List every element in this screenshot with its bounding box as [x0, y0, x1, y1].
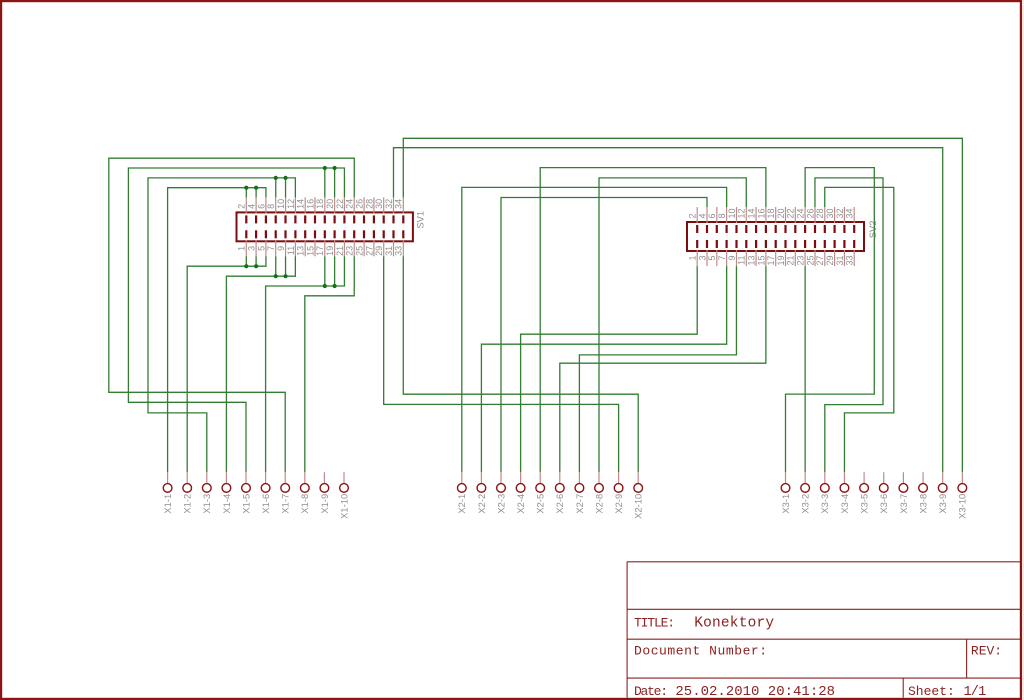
- svg-text:X1-8: X1-8: [299, 494, 310, 514]
- svg-text:8: 8: [717, 213, 727, 218]
- svg-text:13: 13: [747, 256, 757, 266]
- wire net SV1.2/4/6 to X1-1: [168, 188, 266, 473]
- SV1 pin 13 (stub, contact, number): [296, 230, 307, 256]
- SV1 pin 4 (stub, contact, number): [247, 197, 258, 223]
- svg-text:X1-4: X1-4: [221, 494, 232, 514]
- svg-text:Sheet:: Sheet:: [908, 684, 955, 699]
- SV2 pin 34 (stub, contact, number): [845, 207, 856, 233]
- terminal X2-4: [515, 472, 526, 513]
- svg-text:REV:: REV:: [971, 644, 1002, 659]
- svg-text:X1-3: X1-3: [201, 494, 212, 514]
- svg-text:9: 9: [727, 256, 737, 261]
- wire net SV2.26 to X3-3: [815, 178, 883, 472]
- svg-text:17: 17: [315, 246, 325, 256]
- wire net X2-3 to SV2.4: [501, 198, 707, 473]
- svg-text:Konektory: Konektory: [694, 616, 774, 632]
- svg-text:6: 6: [707, 213, 717, 218]
- svg-text:17: 17: [766, 256, 776, 266]
- SV2 pin 26 (stub, contact, number): [805, 207, 816, 233]
- svg-text:SV2: SV2: [867, 221, 878, 239]
- wire net SV1.8/10/12 to X1-3: [148, 178, 295, 472]
- SV2 pin 19 (stub, contact, number): [776, 240, 787, 266]
- wire net SV1.29 to X2-9: [384, 256, 619, 472]
- wire net SV1.34 to X3-10: [403, 138, 962, 472]
- svg-text:18: 18: [766, 208, 776, 218]
- svg-text:23: 23: [796, 256, 806, 266]
- SV1 pin 34 (stub, contact, number): [394, 197, 405, 223]
- SV1 pin 8 (stub, contact, number): [266, 197, 277, 223]
- svg-text:X1-2: X1-2: [182, 494, 193, 514]
- SV2 pin 4 (stub, contact, number): [697, 207, 708, 233]
- wire net SV2.28 to X3-4: [825, 187, 894, 472]
- connector SV1 body: [237, 212, 413, 241]
- svg-text:6: 6: [256, 204, 266, 209]
- svg-text:10: 10: [727, 208, 737, 218]
- SV1 pin 6 (stub, contact, number): [256, 197, 267, 223]
- svg-text:10: 10: [276, 199, 286, 209]
- svg-text:18: 18: [315, 199, 325, 209]
- SV1 pin 5 (stub, contact, number): [256, 230, 267, 256]
- terminal X1-9: [319, 472, 330, 513]
- svg-text:11: 11: [737, 256, 747, 265]
- wire net X2-5 to SV2.16: [540, 168, 766, 473]
- svg-text:X2-9: X2-9: [613, 494, 624, 514]
- svg-text:SV1: SV1: [414, 211, 425, 229]
- svg-text:24: 24: [796, 208, 806, 218]
- svg-text:X3-7: X3-7: [898, 494, 909, 514]
- svg-text:X2-10: X2-10: [633, 494, 644, 519]
- SV2 pin 7 (stub, contact, number): [717, 240, 728, 266]
- wire net SV2.24 to X3-1: [786, 168, 875, 473]
- SV1 pin 25 (stub, contact, number): [354, 230, 365, 256]
- svg-text:31: 31: [384, 246, 394, 256]
- svg-text:26: 26: [354, 199, 364, 209]
- SV1 pin 16 (stub, contact, number): [305, 197, 316, 223]
- svg-text:15: 15: [756, 256, 766, 266]
- svg-text:X2-6: X2-6: [554, 494, 565, 514]
- svg-text:X3-9: X3-9: [937, 494, 948, 514]
- terminal X3-1: [780, 472, 791, 513]
- terminal X3-8: [917, 472, 928, 513]
- svg-text:11: 11: [286, 246, 296, 255]
- svg-text:X1-1: X1-1: [162, 494, 173, 514]
- terminal X2-5: [535, 472, 546, 513]
- svg-text:13: 13: [296, 246, 306, 256]
- SV2 pin 28 (stub, contact, number): [815, 207, 826, 233]
- svg-text:15: 15: [305, 246, 315, 256]
- terminal X1-5: [240, 472, 251, 513]
- terminal X3-9: [937, 472, 948, 513]
- SV2 pin 18 (stub, contact, number): [766, 207, 777, 233]
- svg-text:3: 3: [247, 246, 257, 251]
- svg-text:7: 7: [717, 256, 727, 261]
- terminal X3-4: [839, 472, 850, 513]
- wire net X2-1 to SV2.8: [462, 187, 727, 472]
- SV1 pin 14 (stub, contact, number): [296, 197, 307, 223]
- SV1 pin 10 (stub, contact, number): [276, 197, 287, 223]
- terminal X2-3: [495, 472, 506, 513]
- SV2 pin 11 (stub, contact, number): [737, 240, 748, 266]
- wire net SV1.24 to X1-7: [109, 158, 354, 472]
- svg-text:3: 3: [697, 256, 707, 261]
- junction SV1 pin 8: [274, 176, 278, 180]
- SV1 pin 27 (stub, contact, number): [364, 230, 375, 256]
- terminal X1-7: [280, 472, 291, 513]
- SV1 pin 23 (stub, contact, number): [345, 230, 356, 256]
- svg-text:20: 20: [325, 199, 335, 209]
- svg-text:X2-4: X2-4: [515, 494, 526, 514]
- terminal X3-10: [957, 472, 968, 519]
- frame: right pale margin strip: [1022, 0, 1024, 700]
- connector SV2 body: [687, 222, 864, 251]
- svg-text:27: 27: [364, 246, 374, 256]
- SV1 pin 26 (stub, contact, number): [354, 197, 365, 223]
- terminal X1-4: [221, 472, 232, 513]
- svg-text:25: 25: [354, 246, 364, 256]
- svg-text:Document Number:: Document Number:: [634, 644, 768, 659]
- SV2 pin 10 (stub, contact, number): [727, 207, 738, 233]
- svg-text:26: 26: [805, 208, 815, 218]
- svg-text:28: 28: [364, 199, 374, 209]
- junction SV1 pin 20: [333, 166, 337, 170]
- SV1 pin 24 (stub, contact, number): [345, 197, 356, 223]
- SV1 pin 9 (stub, contact, number): [276, 230, 287, 256]
- svg-text:5: 5: [256, 246, 266, 251]
- SV1 pin 3 (stub, contact, number): [247, 230, 258, 256]
- svg-text:X1-9: X1-9: [319, 494, 330, 514]
- svg-text:1: 1: [688, 256, 698, 261]
- SV2 pin 9 (stub, contact, number): [727, 240, 738, 266]
- SV1 pin 30 (stub, contact, number): [374, 197, 385, 223]
- svg-text:21: 21: [786, 256, 796, 266]
- SV2 pin 13 (stub, contact, number): [747, 240, 758, 266]
- junction SV1 pin 19: [333, 284, 337, 288]
- svg-text:25: 25: [805, 256, 815, 266]
- SV1 pin 31 (stub, contact, number): [384, 230, 395, 256]
- SV2 pin 24 (stub, contact, number): [796, 207, 807, 233]
- SV2 pin 22 (stub, contact, number): [786, 207, 797, 233]
- SV2 pin 12 (stub, contact, number): [737, 207, 748, 233]
- wire net SV1.7/9/11 to X1-4: [226, 256, 295, 472]
- svg-text:X2-3: X2-3: [495, 494, 506, 514]
- svg-text:X3-3: X3-3: [819, 494, 830, 514]
- wire net X2-4 to SV2.1: [521, 266, 698, 472]
- SV2 pin 2 (stub, contact, number): [688, 207, 699, 233]
- svg-text:X2-2: X2-2: [476, 494, 487, 514]
- svg-text:X1-7: X1-7: [280, 494, 291, 514]
- terminal X2-2: [476, 472, 487, 513]
- svg-text:19: 19: [325, 246, 335, 256]
- SV1 pin 29 (stub, contact, number): [374, 230, 385, 256]
- SV2 pin 15 (stub, contact, number): [756, 240, 767, 266]
- terminal X1-1: [162, 472, 173, 513]
- svg-text:5: 5: [707, 256, 717, 261]
- junction SV1 pin 4: [254, 186, 258, 190]
- SV1 pin 1 (stub, contact, number): [237, 230, 248, 256]
- svg-text:20: 20: [776, 208, 786, 218]
- SV2 pin 6 (stub, contact, number): [707, 207, 718, 233]
- SV2 pin 23 (stub, contact, number): [796, 240, 807, 266]
- SV2 pin 20 (stub, contact, number): [776, 207, 787, 233]
- SV2 pin 32 (stub, contact, number): [835, 207, 846, 233]
- junction SV1 pin 9: [283, 274, 287, 278]
- wire net X2-8 to SV2.12: [599, 178, 746, 472]
- svg-text:TITLE:: TITLE:: [634, 616, 674, 631]
- svg-text:1/1: 1/1: [964, 685, 987, 700]
- junction SV1 pin 3: [254, 264, 258, 268]
- svg-text:30: 30: [825, 208, 835, 218]
- wire net X2-2 to SV2.7: [481, 266, 726, 472]
- svg-text:X3-2: X3-2: [800, 494, 811, 514]
- SV1 pin 19 (stub, contact, number): [325, 230, 336, 256]
- terminal X2-1: [456, 472, 467, 513]
- svg-text:34: 34: [394, 199, 404, 209]
- SV2 pin 17 (stub, contact, number): [766, 240, 777, 266]
- terminal X3-5: [859, 472, 870, 513]
- svg-text:X1-10: X1-10: [338, 494, 349, 519]
- svg-text:X2-8: X2-8: [593, 494, 604, 514]
- SV2 pin 1 (stub, contact, number): [688, 240, 699, 266]
- SV2 pin 5 (stub, contact, number): [707, 240, 718, 266]
- wire net SV1.32 to X3-9: [393, 148, 942, 473]
- svg-text:4: 4: [697, 213, 707, 218]
- wire net SV2.23 to X3-2: [804, 266, 806, 472]
- terminal X2-9: [613, 472, 624, 513]
- svg-text:X3-8: X3-8: [917, 494, 928, 514]
- wire net SV1.18/20/22 to X1-5: [128, 168, 344, 472]
- junction SV1 pin 2: [244, 186, 248, 190]
- terminal X1-10: [338, 472, 349, 519]
- svg-text:X3-6: X3-6: [878, 494, 889, 514]
- SV2 pin 14 (stub, contact, number): [747, 207, 758, 233]
- svg-text:4: 4: [247, 204, 257, 209]
- SV1 pin 28 (stub, contact, number): [364, 197, 375, 223]
- terminal X3-7: [898, 472, 909, 513]
- svg-text:X2-1: X2-1: [456, 494, 467, 514]
- SV2 pin 3 (stub, contact, number): [697, 240, 708, 266]
- terminal X1-6: [260, 472, 271, 513]
- svg-text:22: 22: [786, 208, 796, 218]
- svg-text:22: 22: [335, 199, 345, 209]
- SV2 pin 8 (stub, contact, number): [717, 207, 728, 233]
- wire net SV1.33 to X2-10: [403, 256, 638, 472]
- wire net SV1.17/19/21 to X1-6: [266, 256, 345, 472]
- junction SV1 pin 10: [283, 176, 287, 180]
- svg-text:33: 33: [394, 246, 404, 256]
- terminal X3-2: [800, 472, 811, 513]
- svg-text:X2-7: X2-7: [574, 494, 585, 514]
- svg-text:X3-4: X3-4: [839, 494, 850, 514]
- svg-text:12: 12: [737, 208, 747, 218]
- svg-text:X2-5: X2-5: [535, 494, 546, 514]
- svg-text:X1-5: X1-5: [240, 494, 251, 514]
- SV1 pin 21 (stub, contact, number): [335, 230, 346, 256]
- wire net X2-7 to SV2.9: [579, 266, 736, 472]
- svg-text:32: 32: [384, 199, 394, 209]
- SV1 pin 2 (stub, contact, number): [237, 197, 248, 223]
- SV2 pin 25 (stub, contact, number): [805, 240, 816, 266]
- svg-text:19: 19: [776, 256, 786, 266]
- SV1 pin 17 (stub, contact, number): [315, 230, 326, 256]
- junction SV1 pin 17: [323, 284, 327, 288]
- svg-text:X3-1: X3-1: [780, 494, 791, 514]
- SV1 pin 18 (stub, contact, number): [315, 197, 326, 223]
- SV1 pin 15 (stub, contact, number): [305, 230, 316, 256]
- svg-text:27: 27: [815, 256, 825, 266]
- svg-text:16: 16: [756, 208, 766, 218]
- svg-text:34: 34: [845, 208, 855, 218]
- svg-text:12: 12: [286, 199, 296, 209]
- SV1 pin 7 (stub, contact, number): [266, 230, 277, 256]
- svg-text:X1-6: X1-6: [260, 494, 271, 514]
- svg-text:X3-10: X3-10: [957, 494, 968, 519]
- junction SV1 pin 1: [244, 264, 248, 268]
- svg-text:Date:: Date:: [634, 684, 667, 699]
- SV1 pin 22 (stub, contact, number): [335, 197, 346, 223]
- svg-text:14: 14: [747, 208, 757, 218]
- svg-text:31: 31: [835, 256, 845, 266]
- terminal X2-10: [633, 472, 644, 519]
- junction SV1 pin 7: [274, 274, 278, 278]
- svg-text:8: 8: [266, 204, 276, 209]
- svg-text:1: 1: [237, 246, 247, 251]
- SV1 pin 33 (stub, contact, number): [394, 230, 405, 256]
- svg-text:9: 9: [276, 246, 286, 251]
- terminal X3-6: [878, 472, 889, 513]
- svg-text:29: 29: [374, 246, 384, 256]
- SV2 pin 21 (stub, contact, number): [786, 240, 797, 266]
- SV1 pin 20 (stub, contact, number): [325, 197, 336, 223]
- SV2 pin 33 (stub, contact, number): [845, 240, 856, 266]
- SV2 pin 30 (stub, contact, number): [825, 207, 836, 233]
- terminal X3-3: [819, 472, 830, 513]
- SV2 pin 27 (stub, contact, number): [815, 240, 826, 266]
- SV2 pin 29 (stub, contact, number): [825, 240, 836, 266]
- wire net X2-6 to SV2.15: [560, 266, 766, 472]
- terminal X2-6: [554, 472, 565, 513]
- SV1 pin 32 (stub, contact, number): [384, 197, 395, 223]
- SV2 pin 16 (stub, contact, number): [756, 207, 767, 233]
- terminal X1-8: [299, 472, 310, 513]
- SV1 pin 12 (stub, contact, number): [286, 197, 297, 223]
- terminal X2-8: [593, 472, 604, 513]
- svg-text:14: 14: [296, 199, 306, 209]
- svg-text:25.02.2010 20:41:28: 25.02.2010 20:41:28: [675, 684, 835, 700]
- svg-text:32: 32: [835, 208, 845, 218]
- title block outline: [627, 562, 1021, 698]
- SV2 pin 31 (stub, contact, number): [835, 240, 846, 266]
- junction SV1 pin 18: [323, 166, 327, 170]
- svg-text:21: 21: [335, 246, 345, 256]
- SV1 pin 11 (stub, contact, number): [286, 230, 297, 256]
- svg-text:30: 30: [374, 199, 384, 209]
- svg-text:2: 2: [237, 204, 247, 209]
- svg-text:33: 33: [845, 256, 855, 266]
- terminal X1-2: [182, 472, 193, 513]
- svg-text:2: 2: [688, 213, 698, 218]
- wire net SV1.1/3/5 to X1-2: [187, 256, 266, 472]
- svg-text:23: 23: [345, 246, 355, 256]
- svg-text:28: 28: [815, 208, 825, 218]
- svg-text:16: 16: [305, 199, 315, 209]
- terminal X2-7: [574, 472, 585, 513]
- svg-text:29: 29: [825, 256, 835, 266]
- svg-text:7: 7: [266, 246, 276, 251]
- svg-text:24: 24: [345, 199, 355, 209]
- terminal X1-3: [201, 472, 212, 513]
- wire net SV1.23 to X1-8: [305, 256, 354, 472]
- svg-text:X3-5: X3-5: [859, 494, 870, 514]
